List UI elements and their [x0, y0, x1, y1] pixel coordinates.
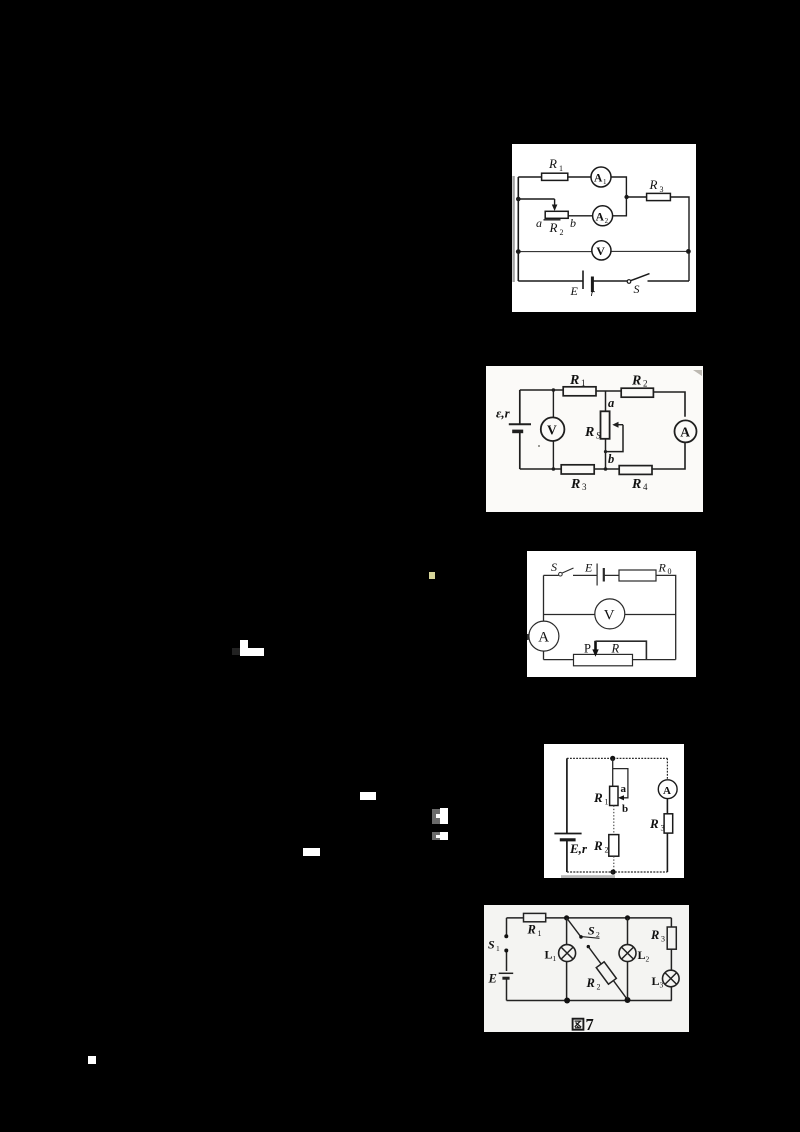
svg-text:R: R: [593, 790, 603, 805]
fragment: grey/white block lower: [432, 832, 440, 840]
wire bottom branch: [567, 871, 668, 873]
battery short plate: [512, 430, 523, 434]
wire top branch: [520, 390, 685, 417]
wire right vertical upper dotted: [666, 758, 668, 780]
figure 4 box: [544, 744, 684, 878]
wire center vertical b: [605, 439, 607, 469]
ammeter A2: [593, 206, 613, 226]
wire left vertical with switch S1: [506, 918, 508, 971]
wire top branch: [518, 177, 626, 197]
svg-text:E: E: [570, 284, 579, 298]
wire V branch: [518, 250, 689, 252]
scan artifact dog-ear top right: [693, 370, 702, 376]
switch S1 dots: [504, 934, 508, 938]
wire battery to bottom: [506, 980, 508, 1001]
svg-text:2: 2: [597, 983, 601, 992]
svg-text:3: 3: [660, 981, 664, 990]
svg-text:R: R: [570, 477, 580, 492]
svg-text:R: R: [649, 177, 658, 192]
wire top branch: [507, 917, 672, 919]
resistor R3: [670, 918, 672, 971]
battery short plate: [560, 838, 576, 841]
svg-text:A: A: [596, 211, 605, 223]
slider arrowhead: [618, 795, 624, 800]
svg-text:L: L: [652, 974, 660, 988]
switch S: [627, 280, 631, 284]
wire center vertical upper: [612, 758, 614, 786]
fragment: yellow speck: [429, 572, 435, 579]
node R2 bottom: [625, 997, 631, 1003]
dark nub left edge: [527, 634, 529, 640]
wire top branch: [544, 575, 676, 659]
svg-text:2: 2: [605, 217, 609, 225]
lamp L2: [627, 918, 629, 1000]
svg-text:b: b: [622, 803, 628, 815]
svg-text:S: S: [588, 924, 595, 938]
rheostat R1: [610, 786, 618, 805]
svg-text:4: 4: [643, 482, 648, 492]
svg-text:1: 1: [605, 798, 609, 807]
svg-text:3: 3: [661, 935, 665, 944]
resistor R1: [563, 387, 596, 396]
svg-text:3: 3: [582, 482, 587, 492]
resistor R2 diagonal: [588, 947, 627, 1000]
fragment: white bar 2: [303, 848, 320, 856]
svg-text:A: A: [680, 425, 690, 440]
svg-text:A: A: [594, 173, 603, 185]
battery short plate: [603, 568, 605, 582]
node left (row 2): [516, 197, 521, 202]
slider loop: [613, 769, 628, 798]
slider arrow R2: [554, 199, 556, 208]
resistor R3: [664, 814, 673, 833]
svg-text:3: 3: [661, 824, 665, 833]
svg-text:R: R: [649, 816, 659, 831]
svg-text:R: R: [584, 425, 594, 440]
svg-text:R: R: [631, 374, 641, 389]
scan speck: [538, 445, 540, 447]
svg-text:2: 2: [560, 228, 564, 237]
voltmeter V: [592, 241, 611, 260]
resistor R1: [542, 173, 568, 180]
switch S2 lower contact: [587, 945, 590, 948]
node bottom V junction: [552, 467, 556, 471]
svg-text:r: r: [591, 287, 596, 299]
svg-text:A: A: [538, 630, 549, 646]
svg-text:R: R: [569, 373, 579, 388]
battery E long plate: [582, 271, 584, 290]
wire bottom branch: [520, 442, 685, 469]
svg-text:0: 0: [668, 567, 672, 576]
lamp L1: [566, 918, 568, 1001]
svg-text:3: 3: [660, 185, 664, 194]
voltmeter V: [541, 417, 565, 441]
svg-text:A: A: [663, 785, 671, 797]
svg-text:7: 7: [586, 1015, 594, 1032]
svg-text:a: a: [621, 783, 627, 795]
svg-text:L: L: [638, 948, 646, 962]
figure 3 box: [527, 551, 696, 677]
ammeter A: [658, 780, 677, 799]
resistor R4: [619, 466, 652, 475]
battery long plate: [554, 833, 581, 835]
svg-text:R: R: [650, 928, 659, 942]
svg-text:1: 1: [538, 929, 542, 938]
grey artifact bottom: [561, 875, 615, 878]
wire A to R3: [666, 799, 668, 814]
wire center dotted lower: [613, 856, 615, 872]
svg-text:R: R: [658, 561, 667, 575]
svg-text:1: 1: [581, 378, 586, 388]
fragment: white square bottom-left: [88, 1056, 96, 1064]
svg-text:V: V: [604, 608, 615, 624]
wire left vertical: [566, 758, 568, 872]
ammeter A1: [591, 167, 611, 187]
voltmeter V: [595, 599, 625, 629]
wire rheostat branch: [518, 197, 626, 220]
svg-text:R: R: [631, 477, 641, 492]
node top: [610, 756, 615, 761]
ammeter A: [529, 621, 559, 651]
wire center dotted mid: [613, 806, 615, 835]
svg-text:a: a: [536, 216, 542, 230]
node V right: [686, 249, 691, 254]
svg-text:R: R: [593, 838, 603, 853]
node V left: [516, 249, 521, 254]
svg-text:S: S: [551, 560, 557, 574]
resistor R3: [561, 465, 594, 474]
svg-text:E: E: [488, 972, 497, 986]
svg-text:1: 1: [603, 178, 607, 186]
wire center vertical a: [605, 391, 607, 412]
resistor R0: [619, 570, 656, 581]
svg-text:E: E: [584, 561, 593, 575]
battery short plate: [591, 277, 594, 293]
svg-text:2: 2: [643, 379, 648, 389]
wire right vertical lower: [666, 833, 668, 872]
svg-text:R: R: [527, 923, 536, 937]
node bottom center junction: [604, 467, 608, 471]
svg-text:S: S: [596, 431, 601, 441]
node bottom: [611, 869, 616, 874]
wire top branch dotted: [567, 757, 668, 759]
wire bottom branch: [518, 280, 689, 282]
rheostat R2: [545, 211, 568, 218]
lamp L3: [663, 970, 680, 987]
svg-text:ε,r: ε,r: [496, 406, 511, 421]
fragment: white bar 1: [360, 792, 376, 800]
switch S circle: [559, 572, 563, 576]
slider arrow P: [594, 641, 597, 651]
svg-text:2: 2: [605, 846, 609, 855]
svg-text:R: R: [611, 642, 620, 656]
figure 2 box: [486, 366, 703, 512]
fragment: grey/white block upper: [432, 809, 440, 824]
wire bottom branch: [544, 659, 676, 661]
battery long plate: [499, 972, 514, 974]
wire bottom branch: [507, 1000, 672, 1002]
svg-text:a: a: [608, 396, 614, 410]
svg-text:S: S: [488, 938, 495, 952]
node 2 top: [625, 915, 630, 920]
resistor R1: [524, 913, 546, 921]
wire V branch: [544, 614, 676, 616]
svg-text:V: V: [547, 423, 557, 438]
svg-text:E,r: E,r: [569, 841, 588, 856]
caption glyph tu (drawn): [573, 1019, 584, 1030]
svg-text:2: 2: [646, 955, 650, 964]
slider bracket: [606, 425, 624, 452]
svg-text:b: b: [570, 216, 576, 230]
svg-text:V: V: [596, 244, 605, 258]
fragment: white L block: [240, 640, 248, 656]
node L1 bottom: [564, 998, 570, 1004]
rheostat R5: [601, 411, 610, 439]
battery long plate: [509, 423, 531, 425]
switch S blade: [562, 568, 573, 573]
svg-text:1: 1: [553, 954, 557, 963]
battery short plate: [502, 977, 509, 980]
svg-text:2: 2: [596, 930, 600, 939]
scan artifact grey strip left edge: [512, 176, 514, 282]
node 1 top: [564, 915, 569, 920]
svg-text:1: 1: [496, 944, 500, 953]
wire left vertical: [517, 177, 519, 281]
slider bracket: [596, 641, 647, 660]
svg-text:S: S: [634, 282, 640, 296]
svg-text:L: L: [545, 948, 553, 962]
wire node to R3: [627, 197, 689, 281]
node right (row 2): [624, 195, 628, 199]
wire battery branch left: [519, 390, 521, 469]
slider arrow R5: [618, 424, 624, 426]
ammeter A: [675, 420, 697, 442]
wire left vertical: [543, 575, 545, 659]
svg-text:R: R: [549, 220, 558, 235]
wire V vertical: [552, 390, 554, 469]
svg-text:P: P: [584, 642, 591, 656]
svg-text:R: R: [548, 156, 557, 171]
svg-text:R: R: [586, 976, 595, 990]
figure 1 box: [512, 144, 696, 312]
svg-text:1: 1: [559, 164, 563, 173]
resistor R2: [621, 388, 653, 397]
figure 5 box: [484, 905, 689, 1032]
switch S2 blade: [567, 918, 581, 936]
node top V junction: [552, 388, 556, 392]
battery long plate: [596, 564, 598, 586]
rheostat R: [574, 654, 633, 665]
resistor R3: [647, 193, 671, 200]
resistor R2: [609, 835, 619, 857]
svg-text:b: b: [608, 452, 614, 466]
